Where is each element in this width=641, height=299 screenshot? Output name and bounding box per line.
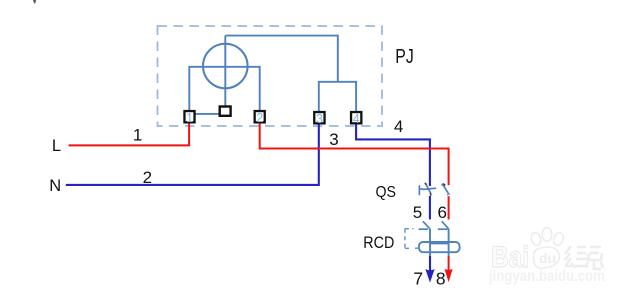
svg-text:du: du — [539, 250, 556, 266]
svg-text:1: 1 — [133, 126, 142, 145]
svg-text:QS: QS — [375, 184, 396, 201]
wire QS to RCD (blue) — [429, 196, 431, 220]
RCD test button dashed box — [405, 229, 419, 249]
wire 1: L feed (red) — [69, 123, 190, 145]
watermark Baidu logo — [491, 228, 565, 274]
svg-text:8: 8 — [436, 269, 446, 289]
svg-text:L: L — [52, 137, 61, 155]
svg-text:5: 5 — [413, 203, 422, 222]
svg-text:3: 3 — [329, 130, 338, 149]
wire coil vertical — [224, 36, 226, 106]
terminal 1 — [184, 111, 194, 125]
wire terminal1 up, through coil, down to terminal2 — [189, 67, 259, 112]
wire connector down to terminals 3 and 4 — [319, 82, 356, 112]
svg-text:PJ: PJ — [395, 46, 414, 68]
RCD through wire right — [448, 229, 450, 256]
wire from terminal 2: L out (red) — [260, 123, 449, 185]
svg-text:6: 6 — [437, 203, 446, 222]
wire coil top to terminals 3/4 connector — [225, 36, 337, 82]
svg-text:4: 4 — [353, 112, 360, 126]
svg-text:3: 3 — [316, 112, 323, 126]
output wire 8 with arrow (red) — [445, 256, 453, 282]
RCD pole blade left — [419, 221, 430, 229]
wire QS to RCD (red) — [448, 196, 450, 219]
wire 2/3: N feed (blue) to terminal 3 — [66, 124, 319, 184]
meter current coil circle — [203, 44, 248, 89]
svg-text:RCD: RCD — [363, 233, 394, 252]
svg-text:1: 1 — [186, 111, 193, 125]
svg-text:2: 2 — [256, 111, 263, 125]
RCD toroid pill — [419, 242, 460, 252]
wire 4: terminal 4 to QS (blue) — [356, 124, 430, 186]
voltage link square — [220, 107, 231, 116]
wire terminal1 to voltage link square — [196, 113, 221, 115]
terminal 3 — [314, 112, 324, 126]
RCD through wire left — [429, 229, 431, 256]
RCD linkage bar — [430, 243, 449, 245]
svg-text:N: N — [49, 177, 61, 195]
watermark 经验 glyphs (drawn) — [565, 246, 603, 269]
RCD pole blade right — [438, 221, 449, 229]
svg-text:jingyan.baidu.com: jingyan.baidu.com — [488, 268, 605, 285]
cursor mark top-left — [33, 0, 36, 4]
switch QS pole 5 — [419, 183, 436, 196]
svg-text:2: 2 — [143, 168, 152, 187]
meter enclosure PJ dashed box — [158, 26, 383, 126]
svg-text:4: 4 — [394, 117, 403, 136]
switch QS pole 6 — [442, 184, 451, 195]
svg-text:7: 7 — [413, 269, 423, 289]
terminal 4 — [351, 112, 361, 126]
terminal 2 — [255, 111, 265, 125]
output wire 7 with arrow (blue) — [425, 256, 434, 283]
